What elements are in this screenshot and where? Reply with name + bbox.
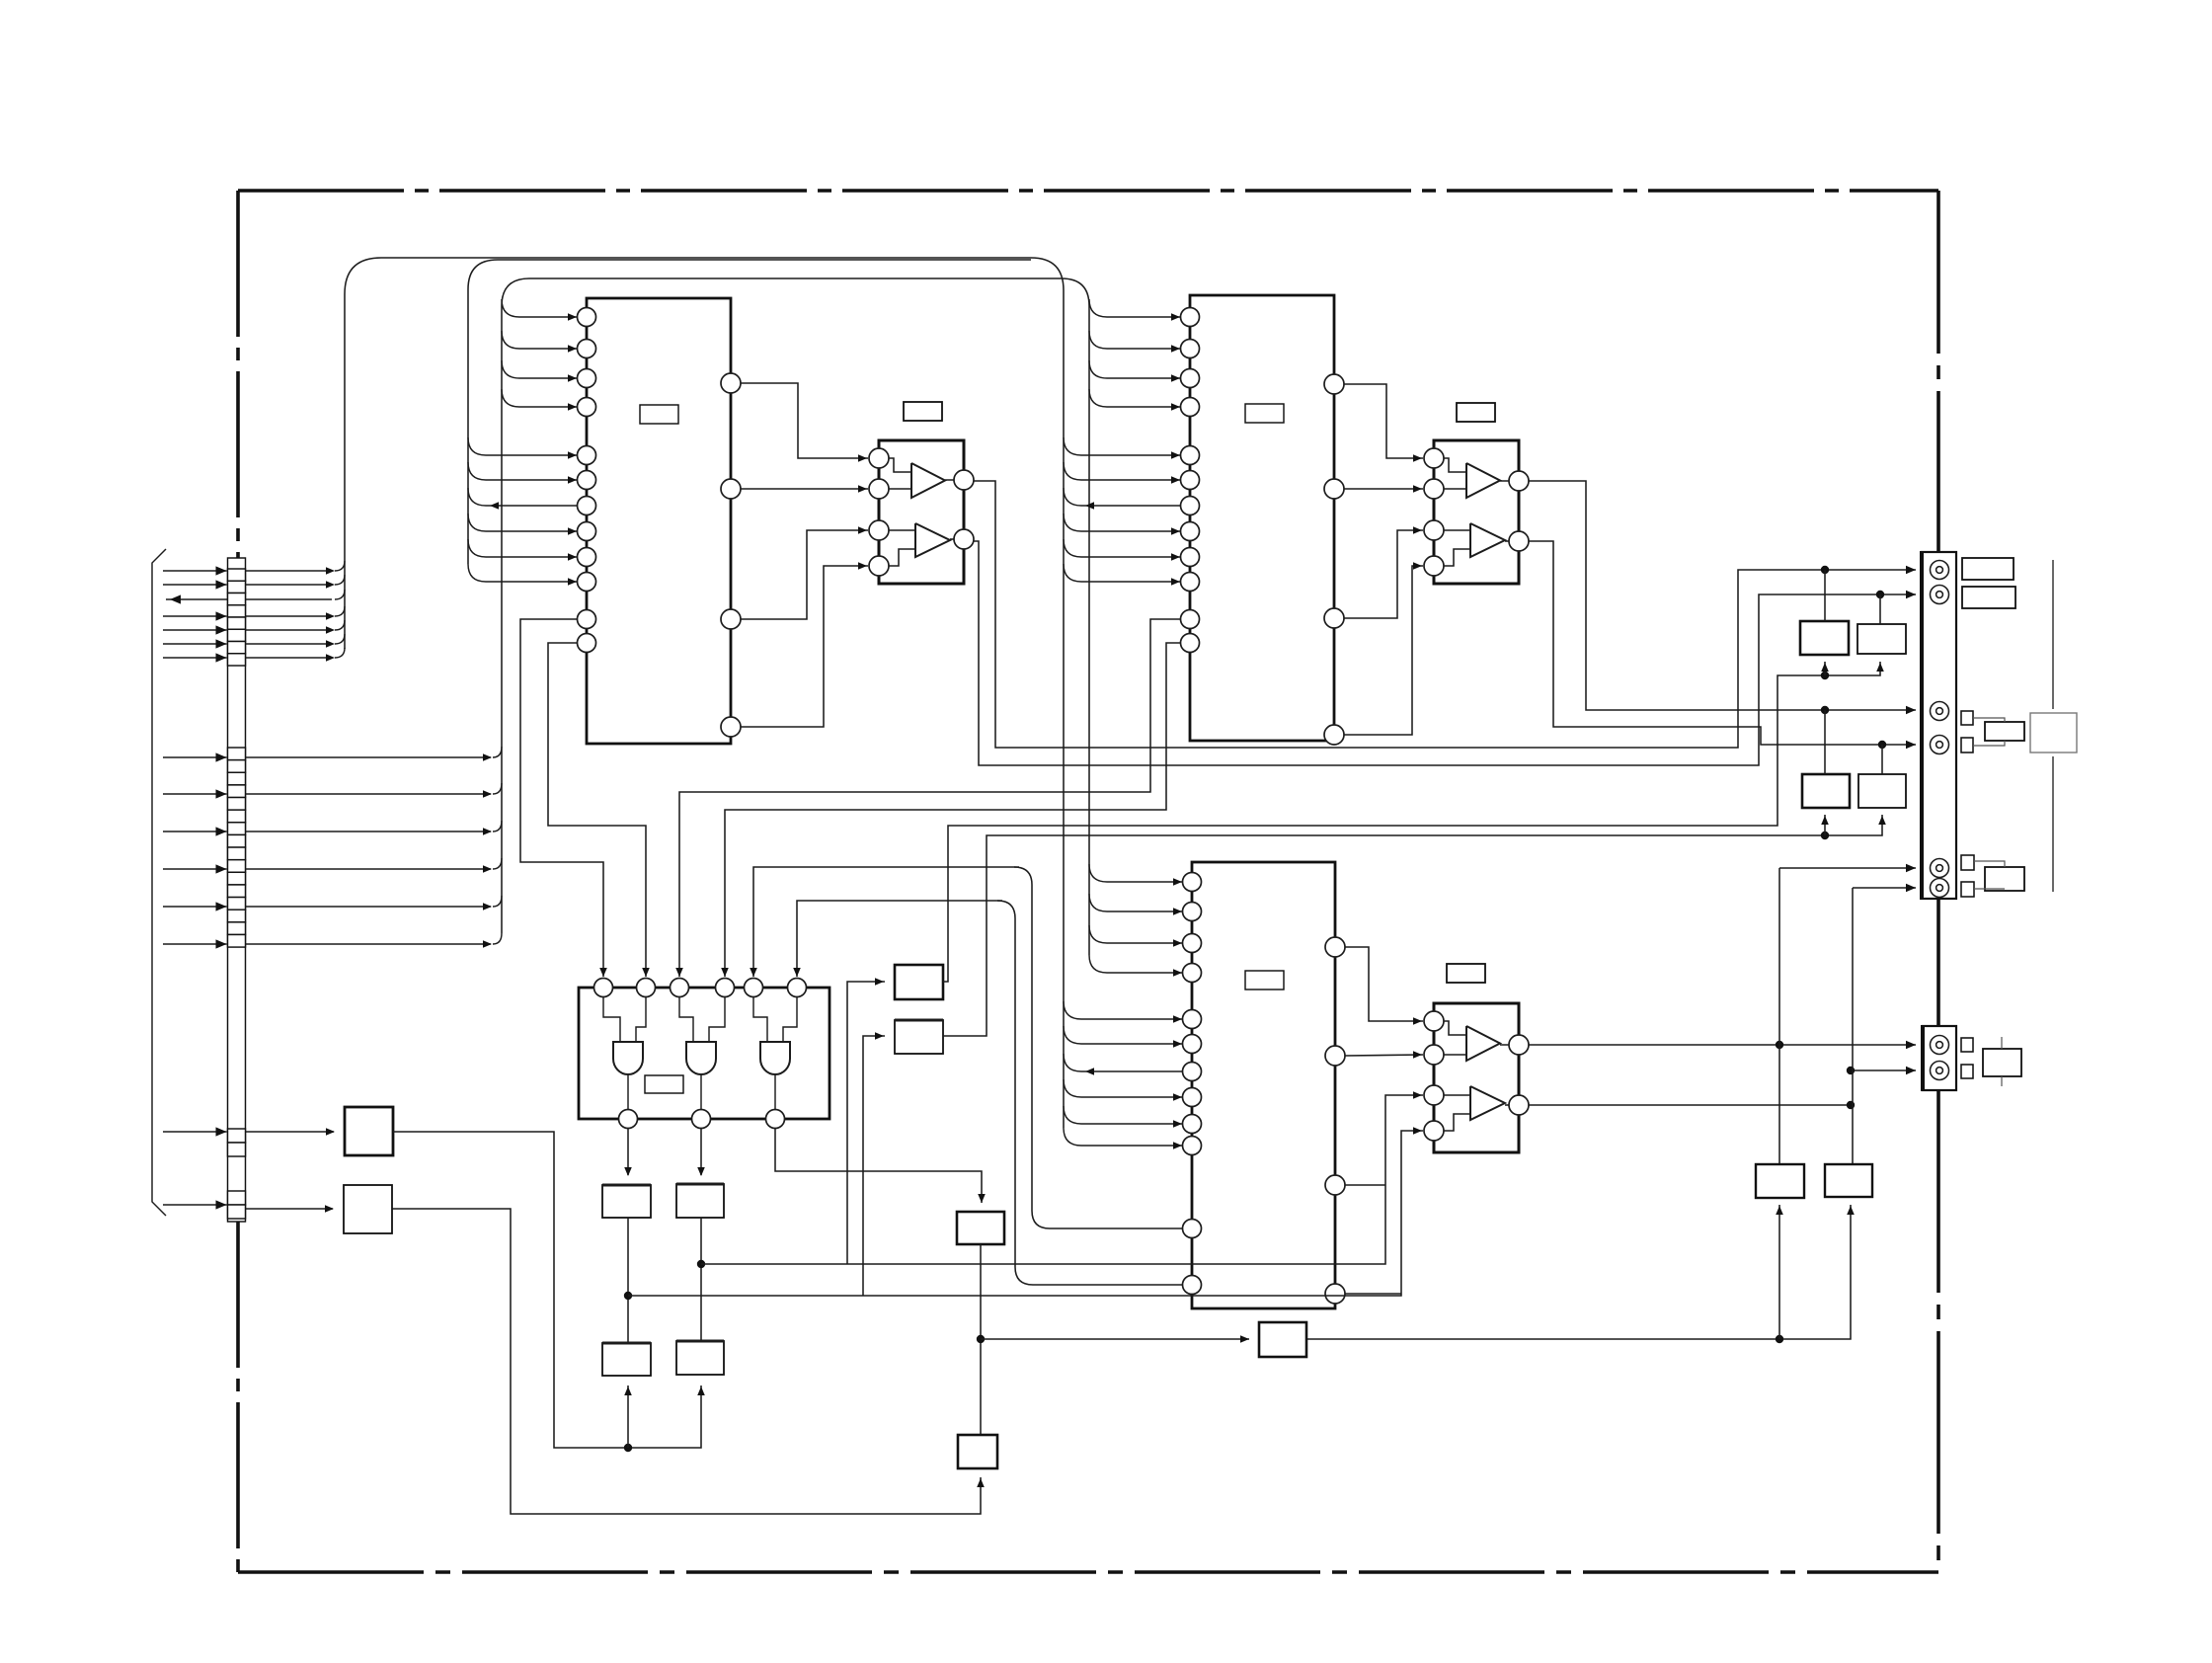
terminal square CN202 jack1 [1961,1038,1973,1052]
wire bus A exit to U2 pin 6 [1064,462,1181,484]
wire P1R top to jack2 line [1879,594,1881,624]
component box R13 [957,1212,1004,1244]
separator line far right upper [2052,560,2054,709]
component box T1 [958,1435,997,1468]
wire R11 out to P1 pair feed [943,662,1884,982]
wire A3 out2 via riser to CN202 jack2 [1529,1067,1916,1109]
component box L11 [602,1343,651,1376]
wire bus C exit to U1 pin 2 [502,331,578,353]
wire bus C exit to U3 pin 1 [1089,864,1183,886]
wire bus C exit to U1 pin 1 [502,299,578,321]
wire A1b out to L boxes [393,1132,705,1452]
wire CN101 top 4 to bus A [246,606,346,620]
component box B1b (left bottom) [344,1185,392,1233]
terminal square jack3 [1961,711,1973,725]
wire CN101 middle 6 to bus C [246,933,503,948]
wire bus B exit to U1 pin 8 [468,514,578,535]
wire bus A exit to U3 pin 7 [1064,1054,1183,1075]
wire bus C exit to U2 pin 1 [1089,299,1181,321]
wire U1 out1 to A1 in1 [741,383,868,462]
component box R11 [895,965,943,999]
wire bus C exit to U3 pin 2 [1089,894,1183,915]
enclosure border (dash-dot) right edge lower [1936,1090,1940,1572]
component box P2R [1858,774,1906,808]
wire U1 out3 to A1 in3 [741,526,868,619]
separator line far right lower [2052,756,2054,892]
enclosure border (dash-dot) bottom edge [238,1570,1938,1574]
component box A1b (left bottom, bold) [345,1107,393,1155]
wire bus A exit to U3 pin 9 [1064,1106,1183,1128]
IC U2 (main block 2) with pin circles and part-number box [1181,295,1345,745]
wire bus A exit to U2 pin 10 [1064,564,1181,586]
component box near CN202 [1983,1037,2021,1086]
wire U3 out4 join [1345,1293,1401,1295]
wire bus B exit to U1 pin 6 [468,462,578,484]
wire CN101 top 6 to bus A [246,634,346,648]
connector CN201 (RCA jack strip on border) [1922,551,1956,900]
component box U11 [602,1185,651,1218]
enclosure border right edge between connectors [1936,899,1940,1026]
wire CN101 top 7 to bus A [246,648,346,662]
wire CN101 middle pin 3 stub [163,827,227,835]
component box near jacks 3-4 [1973,718,2024,746]
terminal square CN202 jack2 [1961,1065,1973,1078]
logic gate array G1 (three AND gates) with label box [579,979,829,1129]
wire U2 pin12 to G1 in4 [721,643,1181,977]
wire U3 out2 to A3 in2 [1345,1051,1423,1059]
wire CN101 middle pin 1 stub [163,752,227,761]
component box U12 [676,1184,724,1218]
component box P1L [1800,621,1849,655]
ghost box (alternate part) [2030,713,2077,752]
wire A1 out2 to CN201 jack2 [974,541,1916,765]
wire bus B exit to U1 pin 5 [468,437,578,459]
wire G1 out3 to box R13 [775,1128,986,1203]
wire CN101 top pin 3 stub [166,594,228,603]
wire CN101 top pin 2 stub [163,580,227,589]
wire U2 out4 to A2 in4 [1344,562,1423,735]
wire bus C exit to U2 pin 3 [1089,360,1181,382]
wire feed line y=1356 to Z1/Z2 [1306,1205,1855,1343]
wire CN101 to box B1b [246,1205,335,1213]
IC U1 (main block 1) with pin circles and part-number box [578,298,742,744]
enclosure border (dash-dot) left edge [236,191,240,558]
wire R13 to node and box T1 [977,1244,985,1435]
wire CN101 top 5 to bus A [246,620,346,634]
wire CN101 middle 5 to bus C [246,896,503,911]
wire node to box M1 [981,1335,1249,1343]
terminal square jack5 [1961,855,1974,870]
wire P2R top to jack4 line [1881,745,1883,774]
wire bus A exit to U3 pin 6 [1064,1026,1183,1048]
wire CN101 middle pin 5 stub [163,902,227,911]
wire CN101 bottom pin 2 stub [163,1200,227,1209]
wire CN101 middle 3 to bus C [246,821,503,835]
wire bus A exit to U3 pin 8 [1064,1079,1183,1101]
wire U1 out4 to A1 in4 [741,562,868,727]
wire A1 out1 to CN201 jack1 [974,481,1916,748]
connector CN101 (left edge connector strip) [228,558,246,1222]
component box near jacks 5-6 [1974,861,2024,891]
wire CN101 top 2 to bus A [246,575,346,589]
wire CN101 top pin 1 stub [163,566,227,575]
wire G1 in5 / U3 pin11 net [750,867,1183,1228]
op-amp block A2 (dual amplifier) with label box [1424,403,1529,584]
wire bus B (U1 pin rows 5-10 feeder) [468,260,1031,564]
terminal square jack6 [1961,882,1974,897]
wire bus B exit to U1 pin 10 [468,564,578,586]
IC U3 (main block 3) with pin circles and part-number box [1183,862,1346,1308]
wire A3 out1 to CN202 jack1 [1529,1041,1916,1049]
wire bus A exit to U2 pin 5 [1064,437,1181,459]
wire bus C exit to U2 pin 2 [1089,331,1181,353]
terminal square jack4 [1961,738,1973,752]
wire U3 out1 to A3 in1 [1345,947,1423,1025]
wire riser node A (jack5 feed / filter column) [1779,864,1916,1164]
wire bus C exit to U3 pin 4 [1089,955,1183,977]
wire CN101 top 3 to bus A [246,590,346,599]
wire bus C exit to U2 pin 4 [1089,389,1181,411]
wire U2 out3 to A2 in3 [1344,526,1423,618]
label box for jack2 [1962,587,2015,608]
wire CN101 top 1 to bus A [246,561,346,575]
wire U2 out1 to A2 in1 [1344,384,1423,462]
wire CN101 middle 2 to bus C [246,783,503,798]
wire CN101 middle 4 to bus C [246,858,503,873]
wire G1 out2 to box U12 [697,1128,705,1176]
wire B out to T1 bottom [392,1209,985,1514]
component box M1 (series element) [1259,1322,1306,1357]
wire U1 pin11 to G1 in1 [520,619,607,977]
wire P2L top to jack3 line [1824,710,1826,774]
wire riser to box R12 [863,1032,885,1296]
wire bus A exit to U2 pin 9 [1064,539,1181,561]
wire CN101 bottom pin 1 stub [163,1127,227,1136]
wire U2 out2 to A2 in2 [1344,485,1423,493]
wire tap U11 to A3 in4 [628,1127,1423,1296]
enclosure border (dash-dot) top edge [238,189,1938,193]
wire bus A (connector top group to U2/U3 pin rows) [345,258,1064,1128]
wire P1L top to jack1 line [1824,570,1826,621]
connector CN202 (lower RCA jack pair) [1923,1025,1956,1091]
component box R12 [895,1020,943,1054]
component box L12 [676,1341,724,1375]
enclosure border (dash-dot) left edge lower [236,1222,240,1572]
wire U1 pin12 to G1 in2 [548,643,650,977]
component box P2L [1802,774,1850,808]
wire riser node B (jack6 feed / filter column) [1853,884,1916,1164]
wire CN101 to box A1b [246,1128,336,1136]
wire CN101 middle pin 2 stub [163,789,227,798]
wire CN101 middle pin 4 stub [163,864,227,873]
wire bus A exit to U3 pin 5 [1064,1001,1183,1023]
wire U2 pin11 to G1 in3 [675,619,1181,977]
wire bus C exit to U1 pin 3 [502,360,578,382]
wire bus A exit to U3 pin 10 [1064,1128,1183,1149]
label box for jack1 [1962,558,2014,580]
wire CN101 top pin 5 stub [163,625,227,634]
enclosure border (dash-dot) right edge upper [1936,191,1940,552]
wire U12 to L12 with tap [697,1218,705,1341]
wire CN101 top pin 7 stub [163,653,227,662]
wire bus B exit to U1 pin 7 [468,488,578,510]
wire CN101 middle pin 6 stub [163,939,227,948]
wire CN101 middle 1 to bus C [246,747,503,761]
wire R12 out to P2 pair feed [943,815,1886,1036]
wire tap U12 to A3 in3 [701,1091,1423,1264]
wire G1 out1 to box U11 [624,1128,632,1176]
wire CN101 top pin 4 stub [163,611,227,620]
component box Z2 (filter) [1825,1164,1872,1197]
wire bus A exit to U2 pin 8 [1064,514,1181,535]
op-amp block A1 (dual amplifier) with label box [869,402,974,584]
wire bus B exit to U1 pin 9 [468,539,578,561]
wire bus C exit to U1 pin 4 [502,389,578,411]
wire CN101 top pin 6 stub [163,639,227,648]
wire riser to box R11 [847,978,885,1264]
wire A2 out2 to CN201 jack4 [1529,541,1916,749]
wire G1 in6 / U3 pin12 net [793,901,1183,1285]
wire U3 out3 join [1345,1184,1385,1186]
op-amp block A3 (dual amplifier) with label box [1424,964,1529,1152]
wire bus A exit to U2 pin 7 [1064,488,1181,510]
wire bus C (connector middle group / U1 pins 1-4 / U2-U3 pins 1-4) [502,278,1089,955]
wire U1 out2 to A1 in2 [741,485,868,493]
component box P1R [1857,624,1906,654]
cable bracket left of connector CN101 [152,549,166,1216]
wire A2 out1 to CN201 jack3 [1529,481,1916,714]
component box Z1 (filter) [1756,1164,1804,1198]
wire bus C exit to U3 pin 3 [1089,925,1183,947]
wire U11 to L11 with tap [624,1218,632,1343]
